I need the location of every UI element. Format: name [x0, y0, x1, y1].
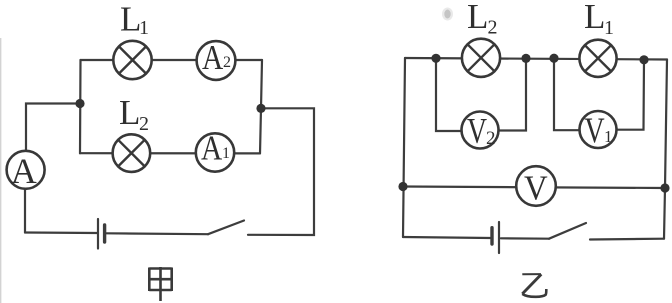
svg-text:1: 1 [604, 127, 613, 146]
svg-text:V: V [524, 170, 548, 208]
svg-text:A: A [201, 128, 223, 167]
svg-text:L: L [119, 93, 140, 132]
svg-text:V: V [467, 111, 487, 150]
svg-text:2: 2 [223, 54, 231, 71]
svg-text:2: 2 [486, 128, 496, 149]
svg-text:A: A [202, 38, 224, 77]
svg-text:L: L [467, 0, 488, 36]
svg-text:2: 2 [139, 113, 149, 135]
svg-text:1: 1 [139, 17, 149, 39]
svg-text:2: 2 [488, 17, 498, 39]
svg-text:A: A [11, 151, 37, 191]
svg-text:V: V [584, 110, 604, 150]
svg-text:L: L [584, 0, 605, 36]
svg-text:1: 1 [604, 17, 614, 39]
svg-text:1: 1 [222, 145, 230, 162]
